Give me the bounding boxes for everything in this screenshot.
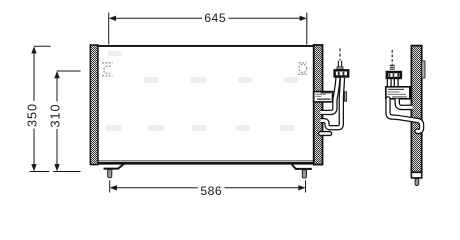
svg-text:350: 350	[26, 103, 40, 127]
svg-text:645: 645	[204, 11, 226, 25]
svg-text:310: 310	[48, 103, 62, 127]
svg-text:586: 586	[200, 184, 222, 198]
